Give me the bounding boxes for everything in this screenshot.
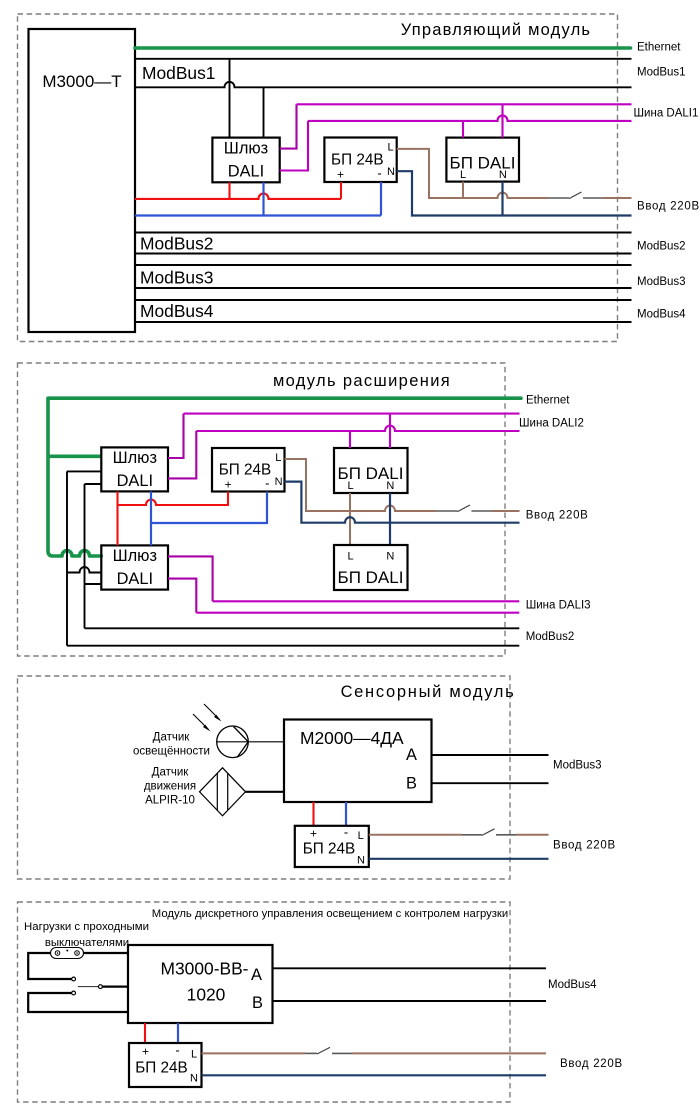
- light arrows: [193, 704, 222, 732]
- wire БП DALI1 L to БП DALI2 L (brown vertical): [349, 493, 351, 545]
- wire БП24В minus drop: [380, 182, 382, 216]
- svg-text:Шлюз: Шлюз: [113, 449, 157, 467]
- wire +24V bus m2 (red, hop over blue at x=151): [118, 491, 229, 505]
- gateway 2: Шлюз DALI: [101, 545, 168, 589]
- wire ModBus3 B: [432, 782, 549, 784]
- svg-text:Шина DALI3: Шина DALI3: [526, 600, 591, 612]
- switch in 220V L: [549, 192, 604, 199]
- wire 220V L m4 after switch: [352, 1052, 546, 1054]
- wire ModBus1-A to gateway: [229, 59, 231, 138]
- wire ModBus2-A vertical: [66, 471, 68, 645]
- svg-text:L: L: [348, 551, 354, 563]
- wire 220V N m3 (navy): [369, 858, 549, 860]
- svg-text:-: -: [175, 1043, 179, 1058]
- svg-text:М2000—4ДА: М2000—4ДА: [300, 728, 404, 748]
- wire controller to БП24В minus (blue): [345, 802, 347, 826]
- svg-text:Ввод 220В: Ввод 220В: [637, 201, 700, 213]
- wire ModBus2-A to gateway1 (hop at x=84.5): [67, 470, 101, 472]
- svg-text:N: N: [386, 551, 394, 563]
- bus Шина DALI3 line A: [213, 600, 520, 602]
- bus ModBus2 m2 line B: [67, 645, 519, 647]
- svg-text:ModBus2: ModBus2: [140, 234, 213, 254]
- wire БП DALI1 N to БП DALI2 N (navy vertical): [389, 493, 391, 545]
- svg-text:Сенсорный модуль: Сенсорный модуль: [341, 683, 516, 701]
- svg-text:A: A: [406, 746, 417, 764]
- wire gateway2 DA to DALI3-A: [168, 556, 213, 601]
- svg-text:ModBus3: ModBus3: [637, 276, 686, 288]
- wire БП24В plus drop: [340, 182, 342, 199]
- svg-text:L: L: [387, 142, 393, 154]
- label Нагрузки с проходными выключателями: [24, 921, 149, 949]
- switch contact 1: [72, 977, 76, 981]
- wire controller to БП24В plus (red): [312, 802, 314, 826]
- power supply БП 24В (module 2): [212, 448, 285, 492]
- wire 220V N m2 (navy, hop over brown at x=350): [285, 482, 520, 523]
- wire Ethernet branch to gateway 1: [48, 454, 101, 458]
- load lamp symbol: [51, 948, 84, 959]
- wire ModBus2-B to gateway2: [85, 583, 102, 585]
- svg-text:N: N: [275, 476, 283, 488]
- wire ModBus1 line A: [135, 58, 632, 60]
- svg-text:Шлюз: Шлюз: [224, 139, 268, 157]
- wire +24V bus (red, hop over blue at x=263.5): [135, 193, 341, 199]
- power supply БП 24В (module 3): [295, 825, 369, 868]
- svg-text:ModBus4: ModBus4: [140, 301, 214, 321]
- wire ModBus3 A: [432, 754, 549, 756]
- svg-text:A: A: [251, 966, 262, 984]
- svg-text:-: -: [377, 166, 381, 181]
- svg-text:Ethernet: Ethernet: [526, 395, 570, 407]
- svg-text:М3000—Т: М3000—Т: [42, 72, 121, 91]
- power supply БП 24В (module 4): [129, 1043, 202, 1088]
- svg-text:Ввод 220В: Ввод 220В: [553, 840, 616, 852]
- svg-text:ModBus3: ModBus3: [553, 760, 602, 772]
- gateway: Шлюз DALI: [212, 138, 279, 183]
- power supply БП DALI 2 (module 2): [334, 545, 408, 590]
- wire 220V L after switch: [603, 197, 632, 199]
- wire lamp to controller: [84, 952, 129, 954]
- bus ModBus3 line B: [135, 287, 632, 289]
- svg-text:ModBus3: ModBus3: [140, 268, 213, 288]
- bus ModBus4 line A: [135, 299, 632, 301]
- wire contact 2 to controller lower input: [28, 993, 128, 1012]
- wire controller to БП24В plus m4 (red): [144, 1023, 146, 1043]
- svg-text:N: N: [386, 480, 394, 492]
- wire gateway1 DA to DALI2-A: [168, 414, 184, 458]
- svg-text:Датчик: Датчик: [152, 767, 190, 779]
- svg-text:Шлюз: Шлюз: [113, 547, 157, 565]
- svg-text:+: +: [142, 1045, 149, 1059]
- svg-text:N: N: [357, 855, 365, 867]
- svg-text:-: -: [265, 476, 269, 491]
- bus ModBus2 line A: [135, 232, 632, 234]
- wire gateway1 DB to DALI2-B: [168, 431, 196, 478]
- wire ModBus1 line B (hop over vertical at x=229.5): [135, 82, 632, 88]
- svg-text:1020: 1020: [187, 984, 226, 1004]
- bus Шина DALI1 line A: [297, 103, 632, 105]
- svg-text:DALI: DALI: [117, 570, 153, 588]
- svg-text:БП 24В: БП 24В: [135, 1060, 188, 1077]
- wire lamp to switch contact 1: [28, 953, 71, 979]
- svg-text:N: N: [387, 166, 395, 178]
- wire motion sensor to controller: [246, 791, 285, 793]
- svg-text:движения: движения: [144, 781, 196, 793]
- svg-text:Датчик: Датчик: [153, 732, 191, 744]
- svg-text:Ввод 220В: Ввод 220В: [526, 510, 589, 522]
- module frame: Сенсорный модуль: [18, 676, 511, 879]
- wire Ethernet trunk (green, hops at x=67 and x=84.5): [48, 398, 521, 556]
- wire -24V bus m2 (blue): [151, 491, 267, 523]
- wire pivot to controller: [102, 985, 128, 987]
- motion sensor (diamond): [200, 768, 246, 816]
- svg-text:Управляющий модуль: Управляющий модуль: [401, 21, 591, 39]
- svg-text:Нагрузки с проходными: Нагрузки с проходными: [24, 921, 149, 933]
- wire red gateway1-gateway2 vertical: [116, 505, 118, 545]
- module frame: модуль расширения: [18, 363, 506, 656]
- module frame: Управляющий модуль: [18, 14, 618, 342]
- wire 220V L m3 (brown) before switch: [369, 834, 462, 836]
- svg-text:М3000-ВВ-: М3000-ВВ-: [161, 959, 249, 979]
- wire 220V N (navy) БП24В to bus: [397, 171, 632, 215]
- svg-text:ModBus1: ModBus1: [142, 63, 215, 83]
- svg-text:модуль расширения: модуль расширения: [273, 372, 451, 390]
- bus Шина DALI2 line B (hop over vertical at x=390): [196, 426, 519, 431]
- wire 220V L (brown) БП24В to bus: [397, 149, 463, 198]
- wire gateway plus drop: [228, 182, 230, 199]
- bus ModBus3 line A: [135, 264, 632, 266]
- svg-text:DALI: DALI: [117, 472, 153, 490]
- controller М3000-ВВ-1020: [128, 945, 273, 1023]
- wire 220V L bus m2 (hop over N at x=390): [350, 506, 437, 511]
- switch pivot: [99, 985, 103, 989]
- wire 220V L m4 (brown) before switch: [202, 1052, 306, 1054]
- svg-text:DALI: DALI: [228, 162, 264, 180]
- svg-text:Шина DALI1: Шина DALI1: [634, 108, 699, 120]
- svg-text:ModBus2: ModBus2: [637, 241, 686, 253]
- wire 220V L bus (hop over N at x=502.5): [463, 193, 549, 199]
- svg-text:L: L: [191, 1049, 197, 1061]
- wire ModBus4 A: [273, 967, 547, 969]
- svg-text:ModBus1: ModBus1: [637, 67, 686, 79]
- light sensor (circle): [217, 726, 284, 758]
- wire controller to БП24В minus m4 (blue): [177, 1023, 179, 1043]
- svg-text:БП 24В: БП 24В: [331, 152, 384, 169]
- svg-text:БП 24В: БП 24В: [219, 462, 272, 479]
- wire БП DALI1 N pin to DALI2-A: [389, 414, 391, 448]
- bus Шина DALI3 line B: [196, 612, 519, 614]
- wire ModBus2-B to gateway1: [85, 483, 102, 485]
- svg-text:освещённости: освещённости: [133, 746, 210, 758]
- svg-text:ModBus4: ModBus4: [637, 309, 686, 321]
- wire 220V L m3 after switch: [516, 834, 549, 836]
- wire БП DALI1 L pin to DALI2-B: [349, 431, 351, 448]
- module frame: Модуль дискретного управления: [18, 902, 511, 1102]
- switch in 220V L m4: [305, 1047, 352, 1054]
- wire ModBus2-A to gateway2 (hop at x=84.5): [67, 567, 101, 572]
- svg-text:Ethernet: Ethernet: [637, 42, 681, 54]
- svg-text:ModBus2: ModBus2: [526, 631, 575, 643]
- wire gateway2 DB to DALI3-B: [168, 579, 196, 613]
- svg-text:БП 24В: БП 24В: [303, 841, 356, 858]
- switch in 220V L m3: [462, 829, 516, 836]
- svg-text:N: N: [190, 1073, 198, 1085]
- power supply БП DALI: [446, 138, 519, 182]
- svg-text:L: L: [358, 830, 364, 842]
- controller M2000-4ДА: [284, 720, 432, 803]
- svg-text:B: B: [406, 775, 417, 793]
- svg-text:+: +: [337, 168, 344, 182]
- wire 220V N m4 (navy): [202, 1074, 547, 1076]
- wire 220V L m2 (brown) БП24В to bus: [285, 459, 351, 511]
- svg-text:+: +: [225, 478, 232, 492]
- wire БП DALI L drop: [462, 182, 464, 198]
- svg-text:N: N: [499, 169, 507, 181]
- bus ModBus2 line B: [135, 253, 632, 255]
- svg-text:Модуль дискретного управления: Модуль дискретного управления освещением…: [152, 908, 508, 920]
- svg-text:Шина DALI2: Шина DALI2: [519, 417, 584, 429]
- switch contact 2: [72, 991, 76, 995]
- bus Шина DALI2 line A: [184, 413, 520, 415]
- wire ModBus4 B: [273, 1000, 547, 1002]
- wire gateway minus drop: [262, 182, 264, 215]
- switch blade: [78, 986, 99, 988]
- wire 220V L m2 after switch: [492, 510, 520, 512]
- switch in 220V L m2: [437, 505, 492, 512]
- svg-text:B: B: [252, 994, 263, 1012]
- controller M3000-T: [29, 29, 136, 332]
- label Датчик движения ALPIR-10: [144, 767, 196, 807]
- wire ModBus1-B to gateway: [263, 87, 265, 137]
- svg-text:Ввод 220В: Ввод 220В: [560, 1058, 623, 1070]
- label Датчик освещённости: [133, 732, 210, 758]
- wire БП DALI N drop: [501, 182, 503, 216]
- svg-text:L: L: [348, 480, 354, 492]
- power supply БП 24В: [324, 138, 396, 183]
- wire -24V bus (blue): [135, 214, 381, 216]
- svg-text:+: +: [310, 827, 317, 841]
- wire gateway DB to DALI1 bus: [280, 121, 308, 171]
- wire БП DALI N pin to DALI1-A: [501, 104, 503, 137]
- svg-text:L: L: [275, 452, 281, 464]
- svg-text:ModBus4: ModBus4: [548, 979, 597, 991]
- wire Ethernet (green): [135, 46, 631, 50]
- power supply БП DALI 1 (module 2): [334, 448, 408, 493]
- wire gateway DA to DALI1 bus: [280, 104, 297, 148]
- bus Шина DALI1 line B (hop over vertical at x=502.5): [308, 115, 632, 120]
- bus ModBus4 line B: [135, 321, 632, 323]
- wire blue gateway1-gateway2 vertical: [150, 523, 152, 545]
- wire БП DALI L pin to DALI1-B: [462, 121, 464, 138]
- svg-text:-: -: [344, 825, 348, 840]
- svg-text:БП DALI: БП DALI: [338, 568, 404, 587]
- bus ModBus2 m2 line A: [85, 627, 520, 629]
- svg-text:L: L: [460, 169, 466, 181]
- svg-text:ALPIR-10: ALPIR-10: [145, 795, 195, 807]
- gateway 1: Шлюз DALI: [101, 447, 168, 491]
- wire ModBus2-B vertical: [84, 484, 86, 628]
